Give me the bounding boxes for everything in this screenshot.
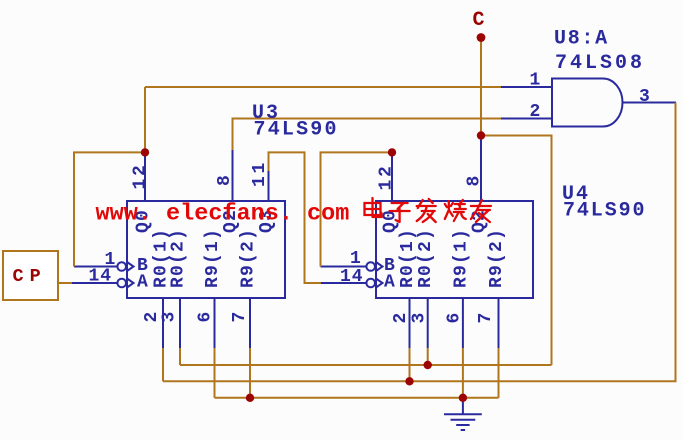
U4 pin 1 clock mark — [376, 262, 383, 271]
svg-text:CP: CP — [13, 266, 47, 287]
wire U3 pin6 drop — [214, 348, 216, 398]
IC U4 74LS90 body — [376, 201, 533, 298]
svg-text:12: 12 — [377, 163, 397, 190]
svg-text:A: A — [137, 273, 148, 293]
U3 pin 6 stub — [214, 298, 216, 348]
svg-text:14: 14 — [89, 267, 113, 287]
U3 pin 14 A stub — [72, 282, 117, 284]
U3 pin 1 bubble — [117, 262, 126, 271]
svg-text:R9(2): R9(2) — [487, 228, 507, 288]
wire U3 pin2 drop — [162, 348, 164, 381]
U3 pin 8 stub — [232, 150, 234, 201]
IC U3 74LS90 body — [127, 201, 285, 298]
U4 pin 2 stub — [409, 298, 411, 348]
op-amp U8:A AND gate body — [552, 79, 623, 127]
wire U3 pin7 drop — [249, 348, 251, 398]
node C dot — [477, 33, 486, 42]
wire U4 pin7 drop — [498, 348, 500, 398]
junction U3 Q0 — [141, 148, 149, 156]
U4 pin 1 bubble — [366, 262, 375, 271]
svg-text:8: 8 — [215, 175, 235, 186]
U4 pin 6 stub — [462, 298, 464, 348]
wire Q2A to gate in2 — [233, 119, 502, 151]
U4 pin 12 stub — [391, 152, 393, 201]
wire Q3A to A input U4 — [269, 152, 322, 283]
wire U4 pin3 drop — [427, 348, 429, 365]
U8:A pin 1 stub — [501, 86, 552, 88]
wire ground net — [215, 397, 499, 399]
junction U4 Q0 — [388, 148, 396, 156]
svg-text:2: 2 — [530, 102, 541, 122]
wire U3 pin3 drop — [179, 348, 181, 365]
U8:A pin 3 stub — [623, 102, 677, 104]
U4 pin 8 stub — [480, 136, 482, 202]
svg-text:11: 11 — [250, 160, 270, 187]
wire Q0B to B input U4 — [321, 152, 393, 266]
svg-text:R9(2): R9(2) — [239, 228, 259, 288]
wire Q0A vertical — [144, 87, 146, 152]
svg-text:6: 6 — [444, 313, 464, 324]
U4 pin 14 bubble — [366, 279, 375, 288]
port CP box — [3, 251, 58, 300]
svg-text:A: A — [384, 273, 395, 293]
wire node C vertical — [480, 42, 482, 136]
U3 pin 3 stub — [179, 298, 181, 348]
junction C net — [477, 131, 485, 139]
svg-text:www. elecfans. com: www. elecfans. com — [96, 201, 350, 228]
U4 pin 7 stub — [498, 298, 500, 348]
ground stub — [462, 398, 464, 414]
U3 pin 7 stub — [249, 298, 251, 348]
svg-text:R0(2): R0(2) — [416, 228, 436, 288]
U3 pin 14 bubble — [117, 279, 126, 288]
svg-text:7: 7 — [230, 312, 250, 323]
U4 pin 14 clock mark — [376, 279, 383, 288]
svg-text:2: 2 — [391, 313, 411, 324]
U3 pin 1 B stub — [74, 266, 117, 268]
wire U4 pin2 drop — [409, 348, 411, 381]
U4 pin 14 A stub — [321, 282, 366, 284]
svg-text:3: 3 — [409, 313, 429, 324]
svg-text:3: 3 — [639, 87, 650, 107]
junction U4 pin3 — [424, 361, 432, 369]
svg-text:12: 12 — [131, 162, 151, 189]
svg-text:U8:A: U8:A — [554, 28, 609, 51]
svg-text:1: 1 — [530, 71, 541, 91]
U3 pin 11 stub — [268, 171, 270, 201]
watermark chinese 电子发烧友 — [365, 198, 491, 222]
svg-text:R9(1): R9(1) — [452, 228, 472, 288]
wire U4 pin6 drop — [462, 348, 464, 398]
svg-text:74LS90: 74LS90 — [563, 199, 646, 222]
wire CP to A input U3 — [58, 282, 72, 284]
wire Q0A to gate in1 — [145, 86, 501, 88]
junction U4 pin2 — [405, 377, 413, 385]
svg-text:6: 6 — [196, 312, 216, 323]
U3 pin 2 stub — [162, 298, 164, 348]
svg-text:R9(1): R9(1) — [203, 228, 223, 288]
wire gate output net — [163, 103, 676, 382]
wire C to R0 net — [481, 136, 552, 366]
svg-text:74LS08: 74LS08 — [555, 52, 645, 75]
U3 pin 1 clock mark — [127, 262, 134, 271]
U4 pin 3 stub — [427, 298, 429, 348]
svg-text:3: 3 — [160, 312, 180, 323]
wire R0(2) net — [180, 364, 552, 366]
svg-text:14: 14 — [340, 267, 364, 287]
svg-text:7: 7 — [476, 313, 496, 324]
svg-text:74LS90: 74LS90 — [254, 119, 339, 142]
svg-text:R0(1): R0(1) — [398, 228, 418, 288]
junction U3 pin7 — [246, 394, 254, 402]
junction ground — [459, 394, 467, 402]
wire Q0A to B input U3 — [74, 152, 145, 266]
U3 pin 12 stub — [144, 152, 146, 201]
U8:A pin 2 stub — [501, 118, 552, 120]
svg-text:8: 8 — [465, 176, 485, 187]
ground — [444, 414, 482, 430]
svg-text:R0(2): R0(2) — [169, 228, 189, 288]
U3 pin 14 clock mark — [127, 279, 134, 288]
svg-text:1: 1 — [350, 249, 361, 269]
svg-text:C: C — [473, 9, 485, 32]
U4 pin 1 B stub — [321, 266, 367, 268]
